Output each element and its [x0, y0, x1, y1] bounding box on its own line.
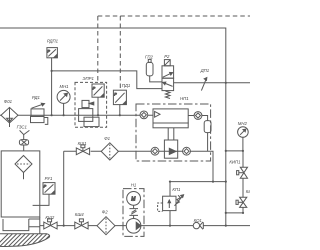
svg-text:КП1: КП1 [172, 187, 181, 192]
svg-text:P: P [114, 93, 117, 97]
svg-text:ПД1: ПД1 [122, 83, 131, 88]
svg-text:КИП2: КИП2 [246, 189, 250, 194]
svg-text:M: M [131, 196, 136, 202]
svg-text:МН1: МН1 [60, 84, 70, 89]
svg-text:РДП1: РДП1 [47, 39, 59, 44]
svg-text:P: P [44, 185, 47, 189]
svg-text:КО1: КО1 [194, 218, 203, 223]
svg-text:РД1: РД1 [32, 95, 41, 100]
svg-text:КШ2: КШ2 [45, 215, 54, 220]
svg-text:ДП1: ДП1 [200, 68, 210, 73]
svg-text:Ф01: Ф01 [4, 99, 13, 104]
svg-text:ГП2: ГП2 [145, 54, 153, 59]
svg-text:РУ1: РУ1 [45, 176, 53, 181]
svg-text:Ф1: Ф1 [104, 136, 110, 141]
svg-text:P: P [48, 50, 51, 54]
svg-text:Н1: Н1 [131, 183, 137, 188]
svg-text:ГЗС1: ГЗС1 [17, 125, 28, 130]
svg-text:Р2: Р2 [164, 54, 170, 59]
svg-text:КИП1: КИП1 [229, 159, 241, 164]
svg-text:ЭПР1: ЭПР1 [83, 76, 95, 81]
svg-text:НП1: НП1 [180, 96, 189, 101]
svg-text:КШ4: КШ4 [75, 212, 84, 217]
svg-text:КШ1: КШ1 [78, 141, 87, 146]
svg-text:МН2: МН2 [238, 121, 248, 126]
svg-text:P: P [93, 86, 96, 90]
svg-text:Ф2: Ф2 [102, 209, 108, 214]
